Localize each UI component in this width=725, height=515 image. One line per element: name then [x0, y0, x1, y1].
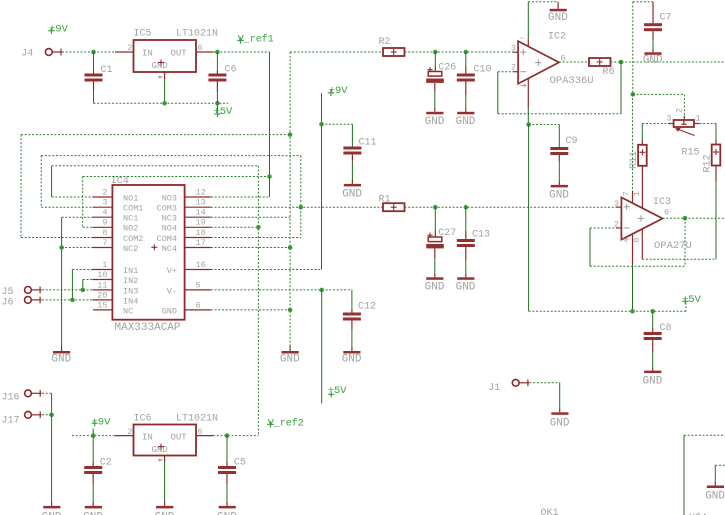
wire J1 to ground: [530, 382, 560, 384]
IC3 pin 4 stub and wire to +5V rail: [632, 234, 634, 264]
wire IC6 OUT to V_ref2: [213, 435, 258, 437]
svg-text:11: 11: [97, 280, 107, 290]
svg-text:IC6: IC6: [134, 414, 152, 425]
svg-text:R6: R6: [603, 67, 615, 78]
svg-text:2: 2: [127, 427, 132, 437]
svg-text:19: 19: [196, 218, 206, 228]
IC6 GND pin 4: [164, 456, 166, 463]
capacitor C12: [351, 290, 353, 310]
wire trimmer pin3 to R11: [642, 123, 668, 125]
svg-text:NC2: NC2: [123, 244, 138, 254]
svg-text:R15: R15: [682, 148, 700, 159]
capacitor C27 (polarized): [434, 207, 436, 231]
svg-text:IC5: IC5: [134, 29, 152, 40]
svg-text:GND: GND: [456, 116, 476, 128]
svg-text:8: 8: [632, 237, 642, 242]
svg-text:C8: C8: [660, 323, 672, 334]
IC4 pin 17 (NC4): [185, 247, 211, 249]
junction C10: [464, 50, 469, 55]
op-amp IC2 OPA336U: [518, 41, 559, 84]
wire NO1 / V_ref2 loop: [52, 165, 259, 167]
svg-text:C2: C2: [100, 457, 112, 468]
capacitor C6: [216, 52, 218, 71]
svg-text:6: 6: [198, 427, 203, 437]
junction V- / +5V: [319, 288, 324, 293]
svg-text:OK1: OK1: [541, 508, 559, 515]
ground C10: [457, 112, 474, 115]
svg-text:6: 6: [198, 43, 203, 53]
wire IC2 output: [559, 61, 589, 63]
wire IN2 to J5 net: [83, 279, 93, 281]
IC4 pin 20 (IN4): [93, 299, 113, 301]
wire NO4 to V_ref2: [211, 226, 259, 228]
IC4 pin 18 (COM4): [185, 237, 211, 239]
R11 to IC3 pin 1: [641, 166, 643, 208]
svg-text:V-: V-: [167, 286, 177, 296]
svg-text:GND: GND: [217, 512, 237, 515]
svg-text:C27: C27: [438, 228, 456, 239]
svg-text:NO3: NO3: [162, 193, 177, 203]
svg-text:J16: J16: [2, 392, 20, 403]
connector pad J6: [25, 297, 32, 304]
junction V_ref1: [267, 174, 272, 179]
svg-text:+5V: +5V: [682, 294, 702, 306]
ground C12: [343, 351, 360, 354]
svg-text:C12: C12: [358, 302, 376, 313]
wire IN1 to J6 net: [72, 269, 92, 271]
IC3 feedback loop: [684, 218, 686, 266]
wire J4 to C1 node: [62, 51, 94, 53]
svg-text:COM3: COM3: [157, 204, 177, 214]
wire IC2 top pin to GND: [527, 2, 529, 39]
IC6 pin 2 (IN): [115, 435, 134, 437]
svg-text:IC4: IC4: [111, 176, 129, 187]
IC3 output wire: [663, 217, 725, 219]
wire C7 net vertical: [632, 2, 634, 95]
IC4 pin 3 (COM1): [93, 206, 113, 208]
junction C13: [464, 205, 469, 210]
wire C11 tap: [322, 123, 353, 125]
svg-text:C11: C11: [359, 138, 377, 149]
junction IN1/J6: [70, 298, 75, 303]
svg-text:16: 16: [196, 260, 206, 270]
wire COM2 loop (outer): [21, 134, 290, 136]
junction NC4 row: [288, 245, 293, 250]
IC3 pin 3 stub: [616, 206, 621, 208]
resistor R1: [383, 203, 405, 211]
wire V- (pin5) row: [211, 289, 352, 291]
svg-text:C10: C10: [474, 65, 492, 76]
wire V_ref2 vertical: [257, 166, 259, 436]
junction C6 / +5V: [215, 101, 220, 106]
ground C9: [551, 185, 568, 188]
IC4 pin 16 (V+): [185, 269, 211, 271]
svg-text:GND: GND: [280, 354, 300, 366]
svg-text:GND: GND: [550, 418, 570, 430]
svg-text:COM4: COM4: [157, 234, 177, 244]
IC4 pin 13 (COM3): [185, 206, 211, 208]
svg-text:13: 13: [196, 198, 206, 208]
IC4 pin 6 (GND): [185, 309, 211, 311]
svg-text:R2: R2: [379, 37, 391, 48]
ground (J1): [559, 409, 561, 413]
IC4 pin 7 (NC2): [93, 247, 113, 249]
wire +5V vertical down to rail: [528, 125, 530, 312]
svg-text:OPA27U: OPA27U: [654, 240, 692, 252]
capacitor C9: [558, 125, 560, 148]
svg-text:GND: GND: [42, 512, 62, 515]
voltage reference IC5 LT1021N: [134, 40, 197, 72]
svg-text:1: 1: [632, 191, 642, 196]
svg-text:GND: GND: [705, 490, 725, 502]
resistor R12: [712, 145, 721, 166]
connector pad J1: [512, 379, 519, 386]
junction C8 / rail: [650, 309, 655, 314]
IC2 feedback loop: [620, 62, 622, 114]
svg-text:1: 1: [696, 114, 701, 124]
svg-text:NC3: NC3: [162, 214, 177, 224]
svg-text:GND: GND: [162, 306, 177, 316]
ground C5: [219, 506, 236, 509]
wire COM4 link: [300, 156, 302, 238]
ground C13: [457, 277, 474, 280]
IC4 pin 12 (NO3): [185, 196, 211, 198]
ground (R2 column): [282, 351, 299, 354]
ground C7: [644, 52, 661, 55]
wire NC3 to ground column: [211, 216, 290, 218]
svg-text:6: 6: [664, 208, 669, 218]
svg-text:14: 14: [196, 208, 206, 218]
svg-text:NC: NC: [123, 306, 133, 316]
capacitor C5: [226, 436, 228, 463]
wire GND pin6 row: [211, 309, 290, 311]
capacitor C8: [652, 311, 654, 328]
wire GND net vertical (R2 column): [289, 52, 291, 346]
junction J16/J17: [49, 413, 54, 418]
svg-text:LT1021N: LT1021N: [176, 29, 218, 40]
svg-text:GND: GND: [643, 375, 663, 387]
svg-text:10: 10: [97, 270, 107, 280]
wire U$4 ground branch: [715, 464, 725, 466]
junction COM2 rail: [288, 132, 293, 137]
junction IN2/J5: [81, 288, 86, 293]
svg-text:15: 15: [97, 300, 107, 310]
junction IC3 output/feedback: [683, 216, 688, 221]
IC5 GND pin 4: [164, 72, 166, 79]
resistor R2: [383, 48, 405, 56]
IC3 pin 2 stub: [616, 227, 621, 229]
svg-text:GND: GND: [548, 12, 568, 24]
capacitor C26 (polarized): [434, 52, 436, 66]
svg-text:IC2: IC2: [548, 32, 566, 43]
wire NC1/NC2 ground net: [62, 216, 93, 218]
svg-text:17: 17: [196, 238, 206, 248]
wire to IC5 IN: [94, 51, 116, 53]
capacitor C10: [465, 52, 467, 66]
ground C8: [644, 371, 661, 374]
IC4 pin 11 (IN3): [93, 289, 113, 291]
IC3 pin 8 stub: [641, 229, 643, 260]
wire R1 to IC3 pin 3: [405, 206, 617, 208]
IC5 pin 6 (OUT): [196, 51, 213, 53]
analog switch IC4 MAX333ACAP: [112, 185, 184, 320]
wire to trimmer wiper: [633, 93, 685, 95]
IC6 pin 6 (OUT): [196, 435, 213, 437]
svg-text:+5V: +5V: [213, 106, 233, 118]
svg-text:2: 2: [127, 43, 132, 53]
svg-text:OPA336U: OPA336U: [550, 75, 594, 87]
svg-text:OUT: OUT: [171, 49, 188, 59]
junction NC2 row: [59, 245, 64, 250]
svg-text:IN1: IN1: [123, 266, 138, 276]
capacitor C13: [465, 207, 467, 231]
svg-text:GND: GND: [425, 116, 445, 128]
svg-text:R11: R11: [629, 151, 640, 169]
trimmer R15: [674, 120, 694, 127]
svg-text:3: 3: [102, 198, 107, 208]
svg-text:8: 8: [102, 228, 107, 238]
svg-text:V_ref2: V_ref2: [268, 417, 304, 429]
op-amp IC3 OPA27U: [621, 197, 662, 239]
svg-text:GND: GND: [342, 354, 362, 366]
svg-text:2: 2: [102, 187, 107, 197]
IC4 pin 1 (IN1): [93, 269, 113, 271]
junction IC2 output/feedback: [619, 60, 624, 65]
connector pad J17: [25, 411, 32, 418]
IC5 pin 2 (IN): [115, 51, 134, 53]
wire IC5 OUT to V_ref1 node: [213, 51, 270, 53]
junction C27: [433, 205, 438, 210]
capacitor C11: [343, 147, 361, 150]
wire V+ (pin16) to +9V: [211, 269, 322, 271]
svg-text:IN: IN: [142, 433, 153, 443]
wire NO2 / V_ref1 loop: [83, 176, 270, 178]
connector pad J5: [25, 287, 32, 294]
svg-text:GND: GND: [155, 512, 175, 515]
svg-text:J17: J17: [2, 415, 20, 426]
ground (IC2 top): [557, 2, 559, 9]
capacitor C2: [92, 436, 94, 463]
capacitor C1: [93, 52, 95, 71]
junction C7 net / trimmer wiper: [631, 92, 636, 97]
junction IC3 V- / rail: [630, 309, 635, 314]
svg-text:C13: C13: [472, 230, 490, 241]
ground C27: [426, 277, 443, 280]
connector pad J16: [25, 390, 32, 397]
junction IC5 OUT / C6: [215, 50, 220, 55]
svg-text:2: 2: [675, 108, 685, 113]
wire R6 to right edge: [611, 61, 725, 63]
junction IC4 GND pin row: [288, 308, 293, 313]
wire R2 to IC2 input: [405, 51, 514, 53]
IC4 pin 19 (NO4): [185, 226, 211, 228]
svg-text:V_ref1: V_ref1: [238, 34, 274, 46]
svg-text:+5V: +5V: [328, 385, 348, 397]
resistor R11: [638, 145, 647, 166]
svg-text:6: 6: [196, 300, 201, 310]
svg-text:R1: R1: [379, 194, 391, 205]
IC2 pin 3 stub: [513, 51, 518, 53]
IC2 pin 2 stub: [513, 71, 518, 73]
power flag +5V (IC5 block): [216, 103, 218, 111]
wire U$4 net (bottom right corner): [684, 434, 725, 436]
wire NC4 to ground column: [211, 247, 290, 249]
wire COM3 row to R1: [211, 206, 383, 208]
connector pad J4: [45, 49, 52, 56]
bottom rail of IC5 block (+5V): [94, 102, 229, 104]
junction IC6 OUT / C5: [225, 433, 230, 438]
wire COM1 loop: [41, 155, 301, 157]
svg-text:GND: GND: [425, 282, 445, 294]
power flag +5V (rail end): [685, 303, 687, 312]
wire V_ref1 vertical: [269, 52, 271, 177]
svg-text:4: 4: [622, 237, 632, 242]
svg-text:IN4: IN4: [123, 296, 138, 306]
svg-text:C26: C26: [438, 63, 456, 74]
svg-text:NO2: NO2: [123, 224, 138, 234]
svg-text:5: 5: [196, 280, 201, 290]
svg-text:4: 4: [102, 208, 107, 218]
wire trimmer pin1 to R12: [699, 123, 716, 125]
svg-text:20: 20: [97, 290, 107, 300]
svg-text:J4: J4: [21, 49, 33, 60]
svg-text:C9: C9: [566, 136, 578, 147]
svg-text:OUT: OUT: [171, 433, 188, 443]
svg-text:COM2: COM2: [123, 234, 143, 244]
wire J16 down: [42, 392, 52, 394]
power flag +5V (below IC4): [321, 290, 323, 404]
svg-text:3: 3: [666, 114, 671, 124]
svg-text:9: 9: [102, 218, 107, 228]
ground (IC4 NC net): [61, 346, 63, 351]
ground C26: [426, 112, 443, 115]
R12 bottom to IC3 pin 8: [715, 166, 717, 182]
svg-text:NC4: NC4: [162, 244, 177, 254]
wire NO3 to V_ref1: [269, 177, 271, 198]
ground (J17): [51, 502, 53, 506]
wire R2 left: [290, 51, 383, 53]
IC4 pin 2 (NO1): [93, 196, 113, 198]
svg-text:GND: GND: [342, 188, 362, 200]
IC4 pin 8 (COM2): [93, 237, 113, 239]
svg-text:R12: R12: [703, 154, 714, 172]
wire J5 to IN3: [42, 289, 93, 291]
IC2 bottom pin stub: [527, 78, 529, 108]
svg-text:C5: C5: [234, 457, 246, 468]
IC4 pin 15 (NC): [93, 309, 112, 311]
junction J4/C1/IC5-IN: [91, 50, 96, 55]
IC4 pin 9 (NO2): [93, 226, 113, 228]
svg-text:18: 18: [196, 228, 206, 238]
svg-text:IC3: IC3: [653, 197, 671, 208]
svg-text:12: 12: [196, 187, 206, 197]
ground (U$4): [714, 482, 716, 486]
svg-text:MAX333ACAP: MAX333ACAP: [115, 322, 181, 334]
svg-text:+9V: +9V: [329, 85, 349, 97]
svg-text:IN2: IN2: [123, 276, 138, 286]
IC3 pin 7 stub and wire up: [632, 191, 634, 204]
junction +9V / C11 tap: [319, 122, 324, 127]
svg-text:J5: J5: [2, 287, 14, 298]
ground (IC6): [164, 502, 166, 506]
svg-text:NC1: NC1: [123, 214, 138, 224]
svg-text:GND: GND: [51, 354, 71, 366]
wire +9V node to IC6 IN: [72, 435, 115, 437]
svg-text:NO1: NO1: [123, 193, 138, 203]
junction NO4/V_ref2: [256, 225, 261, 230]
svg-text:V+: V+: [167, 266, 177, 276]
junction +9V/C2/IC6: [91, 433, 96, 438]
svg-text:C1: C1: [101, 65, 113, 76]
junction IC2 V+ / C9: [526, 122, 531, 127]
svg-text:COM1: COM1: [123, 204, 143, 214]
IC4 pin 14 (NC3): [185, 216, 211, 218]
svg-text:IN3: IN3: [123, 286, 138, 296]
svg-text:GND: GND: [549, 189, 569, 201]
IC4 pin 4 (NC1): [93, 216, 113, 218]
svg-text:C7: C7: [660, 13, 672, 24]
svg-text:LT1021N: LT1021N: [176, 414, 218, 425]
svg-text:J1: J1: [488, 383, 500, 394]
IC4 pin 5 (V-): [185, 289, 211, 291]
svg-text:2: 2: [511, 62, 516, 72]
svg-text:7: 7: [622, 191, 632, 196]
svg-text:GND: GND: [456, 282, 476, 294]
svg-text:7: 7: [102, 238, 107, 248]
+5V rail (bottom right): [529, 310, 686, 312]
svg-text:IN: IN: [142, 49, 153, 59]
resistor R6: [589, 58, 611, 66]
IC4 pin 10 (IN2): [93, 279, 113, 281]
wire J17 to ground: [42, 414, 52, 416]
ground C11: [344, 184, 361, 187]
svg-text:GND: GND: [643, 54, 663, 66]
svg-text:NO4: NO4: [162, 224, 177, 234]
svg-text:GND: GND: [83, 512, 103, 515]
junction IC5 GND pin / rail: [162, 101, 167, 106]
svg-text:1: 1: [102, 260, 107, 270]
junction C26: [433, 50, 438, 55]
IC2 top pin stub: [527, 39, 529, 47]
voltage reference IC6 LT1021N: [134, 425, 197, 456]
junction COM1/COM3/COM4: [299, 205, 304, 210]
svg-text:J6: J6: [2, 298, 14, 309]
svg-text:~: ~: [520, 35, 525, 44]
wire J6 to IN4: [42, 299, 93, 301]
wire IC2 bottom pin to +5V rail: [527, 108, 529, 125]
svg-text:C6: C6: [225, 65, 237, 76]
capacitor C7: [652, 2, 654, 23]
ground C2: [85, 506, 102, 509]
